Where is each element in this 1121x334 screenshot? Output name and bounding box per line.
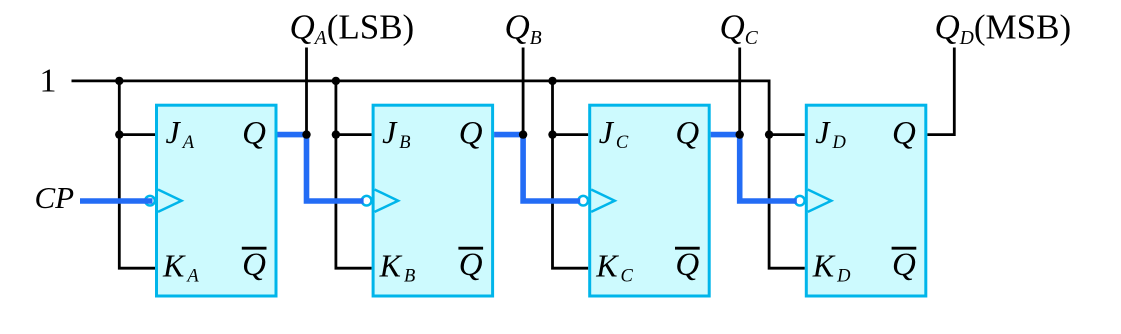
svg-text:Q: Q <box>675 247 699 283</box>
flip-flop U3 (JK flip-flop C) <box>590 105 710 296</box>
junction: 1-rail to stage A branch <box>115 77 123 85</box>
flip-flop U2 (JK flip-flop B) <box>373 105 493 296</box>
wire: 1-rail branch to JC/KC <box>553 81 589 268</box>
svg-text:Q: Q <box>459 247 483 283</box>
svg-text:QB: QB <box>505 8 542 50</box>
svg-text:CP: CP <box>35 180 75 215</box>
svg-text:Q: Q <box>675 116 699 152</box>
wire: 1-rail branch to JA/KA <box>119 81 155 268</box>
svg-text:QC: QC <box>720 8 759 50</box>
junction: branch to JA stub <box>115 130 123 138</box>
wire: JC input stub <box>553 133 589 136</box>
clock bubble U1 (active edge inversion) <box>145 196 155 206</box>
svg-text:1: 1 <box>40 62 57 99</box>
wire: QB to clock of FF C (blue) <box>494 135 580 201</box>
svg-text:Q: Q <box>892 116 916 152</box>
clock bubble U3 (active edge inversion) <box>578 196 588 206</box>
wire: 1-rail branch to JB/KB <box>336 81 372 268</box>
wire: QC to clock of FF D (blue) <box>711 135 797 201</box>
wire: JA input stub <box>119 133 155 136</box>
junction: branch to JC stub <box>548 130 556 138</box>
wire: JD input stub <box>769 133 805 136</box>
wire: QA output stub up to label <box>305 48 308 135</box>
wire: QA to clock of FF B (blue) <box>278 135 364 201</box>
wire: JB input stub <box>336 133 372 136</box>
wire: QC output stub up to label <box>738 48 741 135</box>
flip-flop U4 (JK flip-flop D) <box>806 105 926 296</box>
flip-flop U1 (JK flip-flop A) <box>157 105 277 296</box>
clock edge-trigger triangle U3 <box>591 190 615 212</box>
clock bubble U2 (active edge inversion) <box>362 196 372 206</box>
pin label Q-bar of U4 <box>892 247 917 283</box>
junction: QB stub to clock wire <box>519 130 527 138</box>
wire: Q_D output to label (L-shape) <box>927 48 954 135</box>
pin label Q-bar of U1 <box>242 247 267 283</box>
junction: 1-rail to stage C branch <box>548 77 556 85</box>
svg-text:QD(MSB): QD(MSB) <box>935 8 1072 50</box>
pin label Q-bar of U3 <box>675 247 700 283</box>
svg-text:Q: Q <box>892 247 916 283</box>
junction: branch to JB stub <box>332 130 340 138</box>
clock edge-trigger triangle U1 <box>158 190 182 212</box>
wire: logic-1 rail across top, turning down to feed FF D <box>72 81 805 268</box>
clock edge-trigger triangle U4 <box>808 190 832 212</box>
svg-text:Q: Q <box>242 116 266 152</box>
svg-text:Q: Q <box>459 116 483 152</box>
junction: QC stub to clock wire <box>736 130 744 138</box>
wire: QB output stub up to label <box>522 48 525 135</box>
junction: 1-rail to stage B branch <box>332 77 340 85</box>
svg-text:QA(LSB): QA(LSB) <box>290 8 415 50</box>
pin label Q-bar of U2 <box>458 247 483 283</box>
wire: CP clock input (blue) <box>80 198 153 204</box>
svg-text:Q: Q <box>242 247 266 283</box>
clock edge-trigger triangle U2 <box>375 190 399 212</box>
junction: QA stub to clock wire <box>302 130 310 138</box>
junction: branch to JD stub <box>765 130 773 138</box>
clock bubble U4 (active edge inversion) <box>795 196 805 206</box>
